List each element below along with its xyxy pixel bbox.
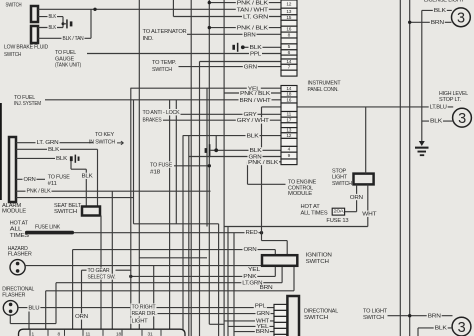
pin box upper 5	[281, 44, 297, 50]
directional flasher circle	[3, 301, 18, 316]
svg-text:PNK / BLK: PNK / BLK	[237, 26, 269, 32]
pin box upper empty	[281, 55, 297, 59]
svg-text:PNK / BLK: PNK / BLK	[27, 189, 51, 195]
svg-text:BLK: BLK	[250, 45, 263, 51]
pin box upper 15	[281, 15, 297, 20]
label GRY / WHT pin17	[236, 117, 270, 123]
label BLK	[48, 24, 58, 30]
svg-text:BLK: BLK	[49, 14, 57, 20]
wire RED riser into ignition switch	[286, 241, 288, 256]
pin box lower 9	[281, 152, 297, 159]
svg-text:PNK: PNK	[243, 274, 257, 280]
ground G2 bar 2	[418, 151, 427, 153]
svg-text:14: 14	[286, 59, 291, 65]
wire bus x176	[175, 100, 177, 224]
wire row to ignition area	[139, 257, 207, 259]
label GRN directional	[256, 310, 271, 316]
bottom connector pin divider	[102, 329, 104, 336]
svg-text:PNK / BLK: PNK / BLK	[237, 0, 269, 6]
svg-text:SWITCH: SWITCH	[54, 209, 77, 215]
ground G3 thin bar	[209, 144, 211, 157]
wire ground jog to seat belt	[71, 168, 86, 170]
svg-text:20A: 20A	[333, 209, 344, 215]
lamp license light	[452, 8, 471, 27]
wire ORN riser into ignition	[274, 250, 276, 256]
svg-text:TO ENGINE: TO ENGINE	[288, 179, 316, 185]
wire bus x153 from YEL row	[153, 266, 155, 330]
lamp rear light	[452, 317, 471, 336]
junction BRN right bus B lower	[408, 314, 411, 317]
svg-text:IND.: IND.	[143, 36, 155, 42]
wire riser seat belt left	[85, 169, 87, 206]
wire ground G4 drop	[70, 161, 72, 169]
wire BRN to light switch	[388, 315, 453, 317]
svg-text:TO FUEL: TO FUEL	[14, 95, 36, 101]
arrow to key-in-switch	[117, 141, 124, 145]
label PNK / BLK lower	[247, 159, 279, 165]
svg-text:11: 11	[86, 331, 91, 336]
label BRN license	[430, 19, 445, 25]
svg-text:LIGHT: LIGHT	[332, 175, 348, 181]
svg-text:TO TEMP.: TO TEMP.	[152, 60, 177, 66]
label LT.GRN ignition	[241, 279, 263, 285]
wire to pin 14 upper	[200, 61, 282, 63]
svg-text:TO KEY: TO KEY	[95, 132, 114, 138]
svg-text:15: 15	[286, 15, 291, 21]
label WHT directional	[255, 318, 270, 324]
label LT. GRN pin15	[242, 14, 269, 20]
svg-text:FLASHER: FLASHER	[8, 251, 32, 257]
svg-text:INJ. SYSTEM: INJ. SYSTEM	[14, 101, 41, 107]
wire to pin 15 LT.GRN	[173, 16, 281, 18]
label REAR DIR.	[131, 310, 158, 316]
svg-text:3: 3	[458, 320, 466, 336]
wire BLK ground drop right side	[421, 10, 423, 141]
wire BLK drop to bottom edge	[417, 328, 419, 336]
label ORN ignition feed	[243, 246, 258, 252]
pin box upper 7	[281, 64, 297, 70]
svg-text:BRN: BRN	[431, 20, 444, 26]
wire bus x183	[182, 136, 184, 330]
svg-text:FLASHER: FLASHER	[2, 292, 25, 298]
wire to pin 16 PNK/BLK	[209, 27, 281, 29]
bottom connector pin divider	[82, 329, 84, 336]
directional switch pin box	[274, 334, 287, 336]
label PNK / BLK	[26, 188, 52, 194]
wire hook riser to flasher lower terminal	[9, 315, 11, 323]
junction RED wire	[260, 231, 263, 234]
wire WHT row stop-light to bus	[224, 226, 368, 228]
directional switch pin box	[274, 322, 287, 328]
label GRN pin9	[248, 154, 263, 160]
wire YEL hazard to ignition switch	[25, 265, 269, 267]
pin box lower empty	[281, 138, 297, 146]
svg-text:(TANK UNIT): (TANK UNIT)	[55, 62, 81, 68]
wire to pin 6 PPL from fuel gauge	[87, 53, 281, 55]
label ORN	[23, 176, 37, 182]
svg-text:TIMES: TIMES	[10, 233, 29, 239]
svg-text:LT. GRN: LT. GRN	[243, 14, 268, 20]
wire YEL to directional switch	[228, 325, 274, 327]
wire riser BLK12 to ground G3	[215, 136, 217, 151]
svg-text:GRY / WHT: GRY / WHT	[237, 118, 270, 124]
label RED	[245, 229, 259, 235]
wire BLK/TAN from lower contact	[38, 37, 91, 39]
label TO ANTI - LOCK	[142, 109, 181, 115]
wire riser seat belt right	[97, 149, 99, 206]
alarm module	[9, 137, 16, 202]
wire to pin 17 GRY/WHT from anti-lock	[163, 119, 281, 121]
svg-text:STOP LT.: STOP LT.	[439, 97, 462, 103]
ground G5 thin bar	[237, 43, 239, 52]
switch contact S1b low brake fluid	[31, 26, 38, 43]
wire to pin 11 GRY from anti-lock	[178, 113, 281, 115]
wire PNK/BLK from alarm module	[16, 190, 211, 192]
label PNK ignition	[242, 273, 257, 279]
label PNK / BLK pin18	[239, 90, 271, 96]
label ORN stop light	[349, 194, 364, 200]
directional switch pin box	[274, 304, 287, 310]
svg-text:LICENSE LIGHT: LICENSE LIGHT	[424, 0, 465, 3]
svg-text:BLU: BLU	[28, 305, 39, 311]
wire BLK license light	[422, 9, 452, 11]
wire BLU drop to connector	[28, 312, 30, 330]
directional switch pin box	[274, 316, 287, 322]
pin box upper 6	[281, 50, 297, 55]
label SELECT SW.	[87, 274, 117, 280]
bottom connector pin divider	[47, 329, 49, 336]
label PPL pin6	[249, 51, 262, 57]
svg-text:TO FUEL: TO FUEL	[55, 50, 77, 56]
svg-text:FUSE LINK: FUSE LINK	[35, 224, 60, 230]
bottom connector pin divider	[121, 329, 123, 336]
pin box upper 14	[281, 59, 297, 64]
svg-text:SWITCH: SWITCH	[304, 315, 328, 321]
label TO FUSE	[149, 161, 173, 167]
wire to pin 9 GRN	[189, 156, 282, 158]
svg-text:DIRECTIONAL: DIRECTIONAL	[304, 308, 339, 314]
wire jog row across middle	[134, 223, 219, 225]
svg-text:BLK / TAN: BLK / TAN	[63, 36, 84, 42]
ground G1 thin bar	[66, 19, 68, 28]
wire gear select drop to connector	[81, 270, 83, 329]
pin box upper 13	[281, 8, 297, 15]
switch contact S1a	[31, 6, 38, 22]
wire riser RED junction to LT.BLU row	[261, 107, 263, 241]
wire BRN to directional switch	[234, 331, 274, 333]
svg-text:11: 11	[287, 112, 292, 118]
wire vertical from pin14 row down	[199, 62, 201, 336]
label GRY pin11	[243, 111, 258, 117]
label BRN pin8	[243, 31, 257, 37]
svg-text:16: 16	[286, 97, 291, 103]
wire second row from alarm module	[16, 197, 134, 199]
bottom connector pin divider	[64, 329, 66, 336]
svg-text:PPL: PPL	[255, 303, 266, 309]
pin box lower 12	[281, 133, 297, 139]
wire LT.GRN riser into ignition	[281, 266, 283, 283]
svg-text:3: 3	[457, 11, 465, 27]
svg-text:BRN: BRN	[260, 285, 273, 291]
pin box upper empty	[281, 38, 297, 44]
svg-text:SWITCH: SWITCH	[363, 315, 384, 321]
svg-text:PPL: PPL	[250, 51, 261, 57]
wire WHT stop light drop	[367, 184, 369, 226]
svg-text:SWITCH: SWITCH	[6, 3, 22, 9]
svg-text:TO FUSE: TO FUSE	[150, 162, 172, 168]
wire vertical riser pin18	[223, 0, 225, 227]
svg-text:PNK / BLK: PNK / BLK	[240, 91, 271, 97]
svg-text:GAUGE: GAUGE	[55, 56, 74, 62]
ground G5 thick bar	[232, 45, 235, 50]
ground G2 bar 1	[415, 147, 429, 149]
pin box lower empty	[281, 159, 297, 165]
directional switch pin box	[274, 328, 287, 334]
wire ORN to ignition switch	[73, 249, 276, 251]
ground G3 thick bar	[205, 148, 207, 153]
directional flasher terminal lower	[9, 310, 13, 314]
label BLK / TAN	[62, 35, 85, 41]
wire BLK to seat belt switch riser	[16, 148, 98, 150]
svg-text:3: 3	[458, 111, 466, 127]
label BLK	[48, 13, 58, 19]
svg-text:12: 12	[286, 1, 291, 7]
svg-text:LIGHT: LIGHT	[132, 319, 149, 325]
svg-text:PNK / BLK: PNK / BLK	[248, 160, 279, 166]
wire RED jog	[262, 240, 288, 242]
ground G1 stub	[63, 23, 66, 25]
svg-text:HOT AT: HOT AT	[301, 204, 321, 210]
svg-text:LT. GRN: LT. GRN	[37, 140, 59, 146]
label ORN bottom	[74, 313, 89, 319]
label WHT stop light	[361, 211, 377, 217]
svg-text:FUSE 13: FUSE 13	[326, 218, 348, 224]
svg-text:YEL: YEL	[248, 267, 260, 273]
bottom connector pin divider	[141, 329, 143, 336]
ground G2 stub	[419, 141, 425, 146]
pin box lower 17	[281, 117, 297, 123]
fuse link bar	[25, 231, 74, 235]
wire to pin 4 BLK from ground G3	[216, 149, 281, 151]
wire to pin 7 GRN from temp switch	[179, 66, 282, 68]
wire fuse link to RED	[74, 232, 262, 234]
wire BLK lower contact to ground G1	[38, 27, 63, 29]
svg-text:BRN: BRN	[244, 32, 256, 38]
wire vertical bus x209	[208, 0, 210, 324]
wire LT.BLU high level stop	[262, 106, 454, 108]
wire ORN drop to connector	[72, 250, 74, 330]
wire stop light riser	[365, 107, 367, 174]
pin box lower 11	[281, 112, 297, 118]
wire GRN to directional switch	[157, 313, 274, 315]
svg-text:BLK: BLK	[430, 119, 443, 125]
wire to fuse 18	[174, 165, 209, 167]
pin box lower empty	[281, 103, 297, 112]
label BLK rear	[434, 325, 448, 331]
wire ground G1 riser	[62, 17, 64, 28]
svg-text:RED: RED	[246, 230, 258, 236]
label PNK / BLK pin12	[236, 0, 269, 6]
pin box lower 14	[281, 86, 297, 92]
wire to pin 12 PNK/BLK	[209, 2, 281, 4]
wire to pin 12 BLK lower	[183, 135, 281, 137]
svg-text:TO FUSE: TO FUSE	[48, 174, 70, 180]
svg-text:REAR DIR.: REAR DIR.	[132, 311, 158, 317]
svg-text:GRN: GRN	[257, 311, 270, 317]
svg-text:TO ALTERNATOR: TO ALTERNATOR	[143, 29, 187, 35]
svg-text:LOW BRAKE FLUID: LOW BRAKE FLUID	[4, 44, 48, 50]
wire bus x234 to bottom edge	[233, 233, 235, 336]
wire fuse to ORN riser	[345, 211, 357, 213]
hazard flasher terminal lower	[16, 269, 20, 273]
label BLK license	[433, 7, 447, 13]
wire to engine control module	[248, 183, 286, 185]
svg-text:ORN: ORN	[24, 177, 36, 183]
wire vertical riser to pin 15	[172, 0, 174, 17]
pin box upper 8	[281, 32, 297, 38]
hazard flasher terminal upper	[16, 262, 20, 266]
wire ORN stop light to fuse	[356, 184, 358, 211]
svg-text:PANEL CONN.: PANEL CONN.	[308, 87, 340, 93]
junction bus x209 pin16 row	[208, 26, 211, 29]
wire bus x130 from YEL row corner	[130, 88, 132, 329]
pin box upper empty	[281, 70, 297, 76]
svg-text:BRN: BRN	[428, 313, 441, 319]
svg-text:ORN: ORN	[75, 314, 88, 320]
svg-text:LT.BLU: LT.BLU	[430, 104, 447, 110]
svg-text:SWITCH: SWITCH	[306, 259, 329, 265]
svg-text:BLK: BLK	[56, 156, 68, 162]
svg-text:31: 31	[148, 331, 153, 336]
label BLK pin12L	[246, 133, 260, 139]
svg-text:18: 18	[286, 92, 291, 98]
wire bus x223 to bottom edge	[223, 227, 225, 336]
wire bus x188	[188, 136, 190, 336]
pin box lower 13	[281, 128, 297, 133]
label BLK	[55, 155, 68, 161]
bottom connector housing	[19, 329, 186, 336]
svg-text:BLK: BLK	[247, 134, 260, 140]
label BRN / WHT pin16L	[239, 97, 272, 103]
wire gear select left stub	[82, 269, 88, 271]
svg-text:12: 12	[286, 133, 291, 139]
junction PNK bus x130	[129, 275, 132, 278]
label BLK	[47, 146, 60, 152]
svg-text:TO GEAR: TO GEAR	[88, 268, 110, 274]
wire bus x133 jog down	[133, 100, 135, 224]
directional switch body	[287, 296, 299, 336]
label PPL directional	[254, 303, 267, 309]
svg-text:16: 16	[286, 27, 291, 33]
label TAN / WHT pin13	[236, 7, 269, 13]
junction ground G5	[241, 45, 245, 49]
wire BLK/TAN riser	[90, 9, 92, 38]
wire LT.GRN to key-in switch	[16, 142, 93, 144]
wire gear select right stub	[116, 269, 131, 271]
wire BRN drop to connector	[45, 291, 47, 329]
label BRN directional	[255, 328, 270, 334]
wire LT.GRN drop	[55, 283, 57, 324]
label #18	[149, 168, 161, 174]
wire to pin 18 PNK/BLK	[224, 92, 281, 94]
label BRAKES	[142, 116, 163, 122]
svg-text:WHT: WHT	[362, 212, 377, 218]
wire BLK rear light	[418, 327, 453, 329]
ground G4 thick bar	[70, 156, 73, 161]
svg-text:MODULE: MODULE	[2, 209, 26, 215]
svg-text:14: 14	[286, 86, 291, 92]
wire to pin 14 YEL	[131, 87, 281, 89]
wire hook to directional flasher	[10, 323, 56, 325]
svg-text:IN SWITCH: IN SWITCH	[89, 139, 115, 145]
label GRN pin7	[243, 64, 258, 70]
label YEL ignition	[247, 267, 261, 273]
wire alarm riser x112	[111, 191, 113, 329]
label TO RIGHT	[131, 303, 157, 309]
pin box lower 16	[281, 97, 297, 103]
svg-text:BLK: BLK	[48, 147, 60, 153]
svg-text:BLK: BLK	[434, 8, 447, 14]
pin box lower 18	[281, 92, 297, 98]
directional switch pin box	[274, 310, 287, 316]
ground G4 thin bar	[75, 155, 77, 163]
wire BRN to ignition switch	[46, 290, 294, 292]
directional flasher terminal upper	[9, 303, 13, 307]
label TO GEAR	[87, 268, 111, 274]
wire BLK high level stop	[422, 120, 454, 122]
svg-text:INSTRUMENT: INSTRUMENT	[308, 80, 342, 86]
wire to pin 16 BRN/WHT from fuel inj	[45, 99, 281, 101]
svg-text:TO ANTI - LOCK: TO ANTI - LOCK	[143, 110, 180, 116]
wire PNK to ignition switch	[131, 275, 275, 277]
wire BRN license light	[410, 21, 452, 23]
label LIGHT	[131, 318, 149, 324]
wire to pin PNK/BLK engine control	[248, 161, 282, 163]
svg-text:BRN: BRN	[256, 329, 269, 335]
label LT.BLU	[429, 104, 448, 110]
svg-text:BRN / WHT: BRN / WHT	[240, 98, 272, 104]
svg-text:17: 17	[286, 117, 291, 123]
wire bus x218 to bottom edge	[218, 224, 220, 336]
wire ORN to fuse 11	[16, 178, 45, 180]
svg-text:SWITCH: SWITCH	[4, 52, 21, 58]
svg-text:SELECT SW.: SELECT SW.	[88, 274, 117, 280]
wire bus x228 to bottom edge	[227, 227, 229, 336]
wire BLK to ground G4	[16, 157, 66, 159]
wire right bus A	[399, 0, 401, 336]
pin box upper 12	[281, 0, 297, 8]
label LT. GRN	[36, 139, 60, 145]
label BLK high level	[429, 118, 443, 124]
svg-text:TO RIGHT: TO RIGHT	[132, 304, 157, 310]
wire vertical bus x190	[190, 0, 192, 336]
scan artifact left edge	[0, 103, 2, 200]
wire bus x169	[169, 100, 171, 329]
bottom connector pin divider	[29, 329, 31, 336]
label BLK pin4	[249, 147, 263, 153]
svg-text:BLK: BLK	[435, 326, 448, 332]
svg-text:ALL TIMES: ALL TIMES	[301, 210, 328, 216]
label YEL directional	[256, 323, 270, 329]
wire right bus B	[409, 0, 411, 336]
wire WHT to directional switch	[224, 320, 274, 322]
wire riser engine control	[247, 162, 249, 185]
stop light switch	[354, 174, 374, 185]
junction ground G3	[214, 148, 218, 152]
svg-text:IGNITION: IGNITION	[306, 252, 332, 258]
label BLU	[27, 304, 40, 310]
svg-text:18: 18	[116, 331, 121, 336]
